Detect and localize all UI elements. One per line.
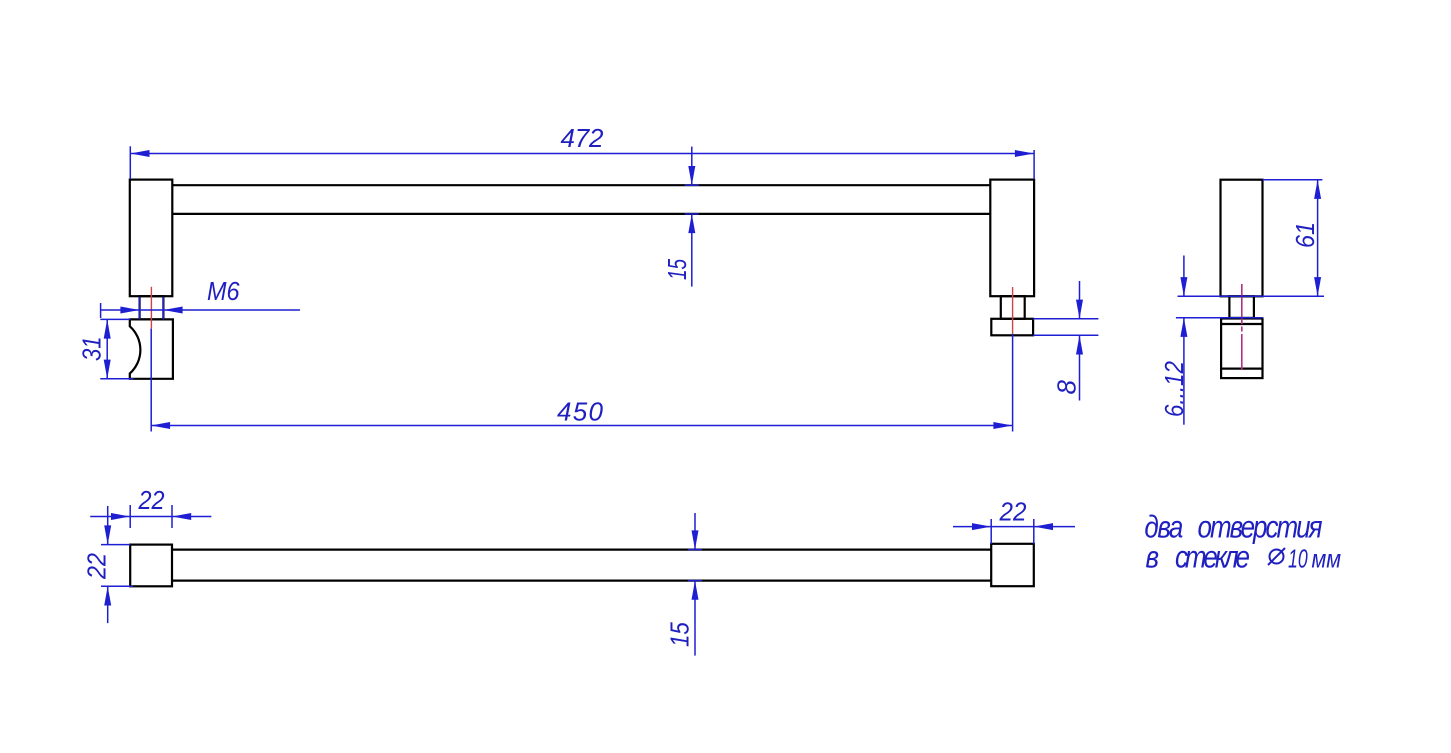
svg-text:472: 472 [561, 123, 605, 153]
svg-text:450: 450 [557, 397, 604, 427]
diameter symbol [1268, 548, 1285, 565]
svg-text:мм: мм [1312, 545, 1342, 574]
dimension 22 right [953, 519, 1075, 544]
svg-text:22: 22 [138, 487, 165, 515]
svg-text:стекле: стекле [1175, 540, 1250, 575]
svg-text:22: 22 [83, 553, 111, 580]
svg-text:M6: M6 [207, 278, 240, 306]
dimension 15 (top view, bar height) [685, 147, 699, 287]
bottom view bar top line [172, 548, 991, 550]
dimension 450 [151, 329, 1013, 432]
svg-text:10: 10 [1288, 544, 1308, 573]
left clamp block with concave arc [130, 319, 173, 378]
svg-text:61: 61 [1292, 222, 1320, 248]
dimension M6 [101, 297, 300, 319]
long extension line at post bottom (side view) [1178, 295, 1325, 297]
bottom view right square [991, 544, 1034, 586]
svg-text:15: 15 [666, 622, 695, 647]
right neck [1001, 296, 1025, 319]
svg-text:8: 8 [1052, 380, 1082, 395]
dimension 31 [100, 319, 133, 378]
svg-text:31: 31 [78, 336, 107, 361]
left post (front view) [130, 180, 173, 297]
dimension 472 [130, 146, 1034, 179]
extension line at neck bottom (side view) [1176, 317, 1263, 319]
side detail block inner line bottom [1221, 368, 1262, 370]
dimension 15 bottom [688, 513, 702, 656]
dimension 6...12 [1183, 256, 1185, 425]
bottom view left square [130, 545, 172, 587]
red centerline left [150, 287, 152, 329]
dimension 8 [1033, 281, 1098, 401]
svg-text:22: 22 [999, 498, 1027, 527]
dimension 22 left horizontal [90, 505, 211, 528]
red centerline right [1012, 287, 1014, 334]
side detail view neck [1229, 296, 1254, 318]
right post (front view) [990, 180, 1034, 297]
svg-text:в: в [1146, 540, 1160, 575]
left neck (threaded stud) [140, 296, 164, 319]
dimension 61 [1263, 180, 1323, 297]
svg-text:6...12: 6...12 [1160, 361, 1189, 417]
side detail view post [1221, 180, 1263, 297]
bottom view bar bottom line [172, 579, 991, 581]
side detail block inner line top [1221, 323, 1262, 325]
svg-text:15: 15 [662, 259, 692, 280]
dimension 22 left vertical [101, 506, 133, 623]
side detail view clamp block [1221, 319, 1262, 379]
magenta centerline (dash-dot) [1241, 284, 1243, 370]
right flange [991, 319, 1033, 336]
crossbar top line [172, 184, 990, 186]
crossbar bottom line [172, 213, 990, 215]
